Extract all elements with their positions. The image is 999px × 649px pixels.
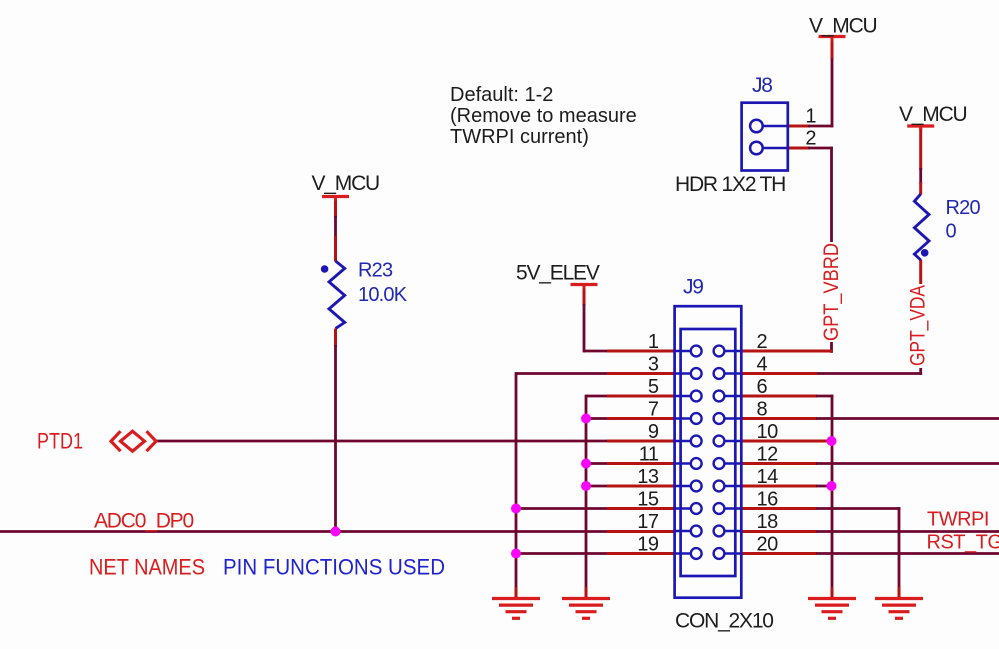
J9 row pins 19/20 xyxy=(675,552,691,555)
svg-text:4: 4 xyxy=(757,354,768,376)
svg-text:5V_ELEV: 5V_ELEV xyxy=(516,262,600,285)
svg-text:10: 10 xyxy=(757,421,779,443)
svg-text:15: 15 xyxy=(637,489,659,511)
power symbol V_MCU xyxy=(819,35,846,38)
wire J9 pin16 to GND line xyxy=(741,507,817,510)
J9 row pins 9/10 xyxy=(675,440,691,443)
power symbol V_MCU xyxy=(907,124,934,127)
svg-text:HDR 1X2 TH: HDR 1X2 TH xyxy=(675,173,785,196)
connector J9 inner box xyxy=(681,329,736,576)
J9 row pins 13/14 xyxy=(675,485,691,488)
wire J9 pin10 stub xyxy=(741,440,830,443)
junction pin7 xyxy=(581,414,591,424)
svg-text:0: 0 xyxy=(946,221,957,243)
wire net ADC0_DP0 to J9 pin17 xyxy=(0,530,608,533)
svg-text:6: 6 xyxy=(757,376,768,398)
resistor R23 xyxy=(329,261,345,329)
wire J9 pin11 stub xyxy=(586,462,608,465)
wire J9 pin13 stub xyxy=(586,485,608,488)
svg-text:7: 7 xyxy=(648,399,659,421)
J9 row pins 5/6 xyxy=(675,395,691,398)
svg-text:TWRPI: TWRPI xyxy=(927,509,989,531)
wire J9 pin14 stub xyxy=(741,485,817,488)
svg-text:12: 12 xyxy=(757,444,779,466)
svg-text:Default: 1-2: Default: 1-2 xyxy=(450,84,553,106)
wire J9 pin12 xyxy=(741,462,817,465)
svg-text:20: 20 xyxy=(757,534,779,556)
wire J9 pin15 stub xyxy=(516,507,608,510)
svg-text:PIN FUNCTIONS USED: PIN FUNCTIONS USED xyxy=(223,555,445,580)
svg-text:13: 13 xyxy=(637,466,659,488)
wire J9 pin6 to GND line xyxy=(741,395,817,398)
svg-text:TWRPI current): TWRPI current) xyxy=(450,126,589,148)
svg-text:V_MCU: V_MCU xyxy=(899,103,967,126)
J9 row pins 15/16 xyxy=(675,507,691,510)
connector J8 xyxy=(742,103,788,171)
svg-text:J9: J9 xyxy=(683,276,703,299)
junction pin13 xyxy=(581,481,591,491)
svg-text:NET NAMES: NET NAMES xyxy=(89,555,205,580)
wire J9 pin7 stub xyxy=(586,417,608,420)
connector J9 outer box xyxy=(675,306,742,598)
GND vertical wire x=832 xyxy=(831,395,834,589)
svg-text:17: 17 xyxy=(637,511,659,533)
wire J8 pin2 / net GPT_VBRD xyxy=(788,147,810,150)
svg-text:V_MCU: V_MCU xyxy=(312,172,380,195)
wire J9 pin2 stub xyxy=(741,350,833,353)
svg-text:14: 14 xyxy=(757,466,779,488)
off-page connector PTD1 xyxy=(111,431,121,451)
power symbol V_MCU xyxy=(322,195,349,198)
svg-text:R20: R20 xyxy=(946,197,981,219)
wire V_MCU stem to R23 xyxy=(334,198,337,218)
svg-text:1: 1 xyxy=(648,331,659,353)
wire J9 pin5 to GND line xyxy=(586,395,608,398)
junction ADC0_DP0/R23 xyxy=(331,527,341,537)
resistor R20 xyxy=(914,194,929,260)
net label GPT_VDA xyxy=(908,284,930,368)
wire J9 pin19 stub xyxy=(516,552,608,555)
svg-text:J8: J8 xyxy=(752,74,772,97)
svg-text:5: 5 xyxy=(648,376,659,398)
junction pin14 xyxy=(827,481,837,491)
svg-text:16: 16 xyxy=(757,489,779,511)
J9 row pins 3/4 xyxy=(675,372,691,375)
GND vertical wire x=899 xyxy=(898,507,901,589)
svg-text:10.0K: 10.0K xyxy=(358,284,408,306)
net label GPT_VBRD xyxy=(821,242,843,342)
ground symbol at x=586 xyxy=(562,597,610,600)
wire J9 pin8 xyxy=(741,417,817,420)
svg-text:9: 9 xyxy=(648,421,659,443)
wire J9 pin20 / net RST_TG xyxy=(741,552,817,555)
svg-text:CON_2X10: CON_2X10 xyxy=(675,610,773,633)
svg-text:8: 8 xyxy=(757,399,768,421)
J9 row pins 11/12 xyxy=(675,462,691,465)
svg-text:11: 11 xyxy=(639,444,659,466)
J9 row pins 1/2 xyxy=(675,350,691,353)
wire net PTD1 to J9 pin9 xyxy=(156,440,608,443)
svg-text:1: 1 xyxy=(805,106,816,128)
svg-text:19: 19 xyxy=(637,534,659,556)
junction pin10 xyxy=(827,436,837,446)
GND vertical wire x=516 xyxy=(515,372,518,589)
svg-text:RST_TG: RST_TG xyxy=(927,532,999,554)
svg-text:PTD1: PTD1 xyxy=(37,429,83,454)
junction pin15 xyxy=(511,504,521,514)
svg-text:GPT_VDA: GPT_VDA xyxy=(906,284,930,366)
J9 row pins 7/8 xyxy=(675,417,691,420)
ground symbol at x=832 xyxy=(808,597,856,600)
ground symbol at x=899 xyxy=(875,597,923,600)
wire J9 pin3 to GND line xyxy=(516,372,608,375)
wire J9 pin18 / net TWRPI xyxy=(741,530,817,533)
svg-text:2: 2 xyxy=(805,128,816,150)
wire V_MCU stem to R20 xyxy=(919,128,922,171)
wire R20 to J9 pin4 / net GPT_VDA xyxy=(919,260,922,293)
junction pin19 xyxy=(511,549,521,559)
svg-text:GPT_VBRD: GPT_VBRD xyxy=(819,243,843,341)
svg-text:ADC0_DP0: ADC0_DP0 xyxy=(94,510,193,533)
svg-text:18: 18 xyxy=(757,511,779,533)
power symbol 5V_ELEV xyxy=(571,283,598,286)
ground symbol at x=516 xyxy=(492,597,540,600)
svg-text:3: 3 xyxy=(648,354,659,376)
wire R23 to ADC0_DP0 net xyxy=(334,329,337,348)
junction pin11 xyxy=(581,459,591,469)
svg-text:(Remove to measure: (Remove to measure xyxy=(450,105,637,127)
wire V_MCU stem to J8 pin1 xyxy=(831,38,834,60)
svg-text:V_MCU: V_MCU xyxy=(809,15,877,38)
wire 5V_ELEV to J9 pin1 xyxy=(583,287,586,307)
J9 row pins 17/18 xyxy=(675,530,691,533)
svg-text:2: 2 xyxy=(757,331,768,353)
GND vertical wire x=586 xyxy=(585,395,588,589)
svg-text:R23: R23 xyxy=(358,260,393,282)
